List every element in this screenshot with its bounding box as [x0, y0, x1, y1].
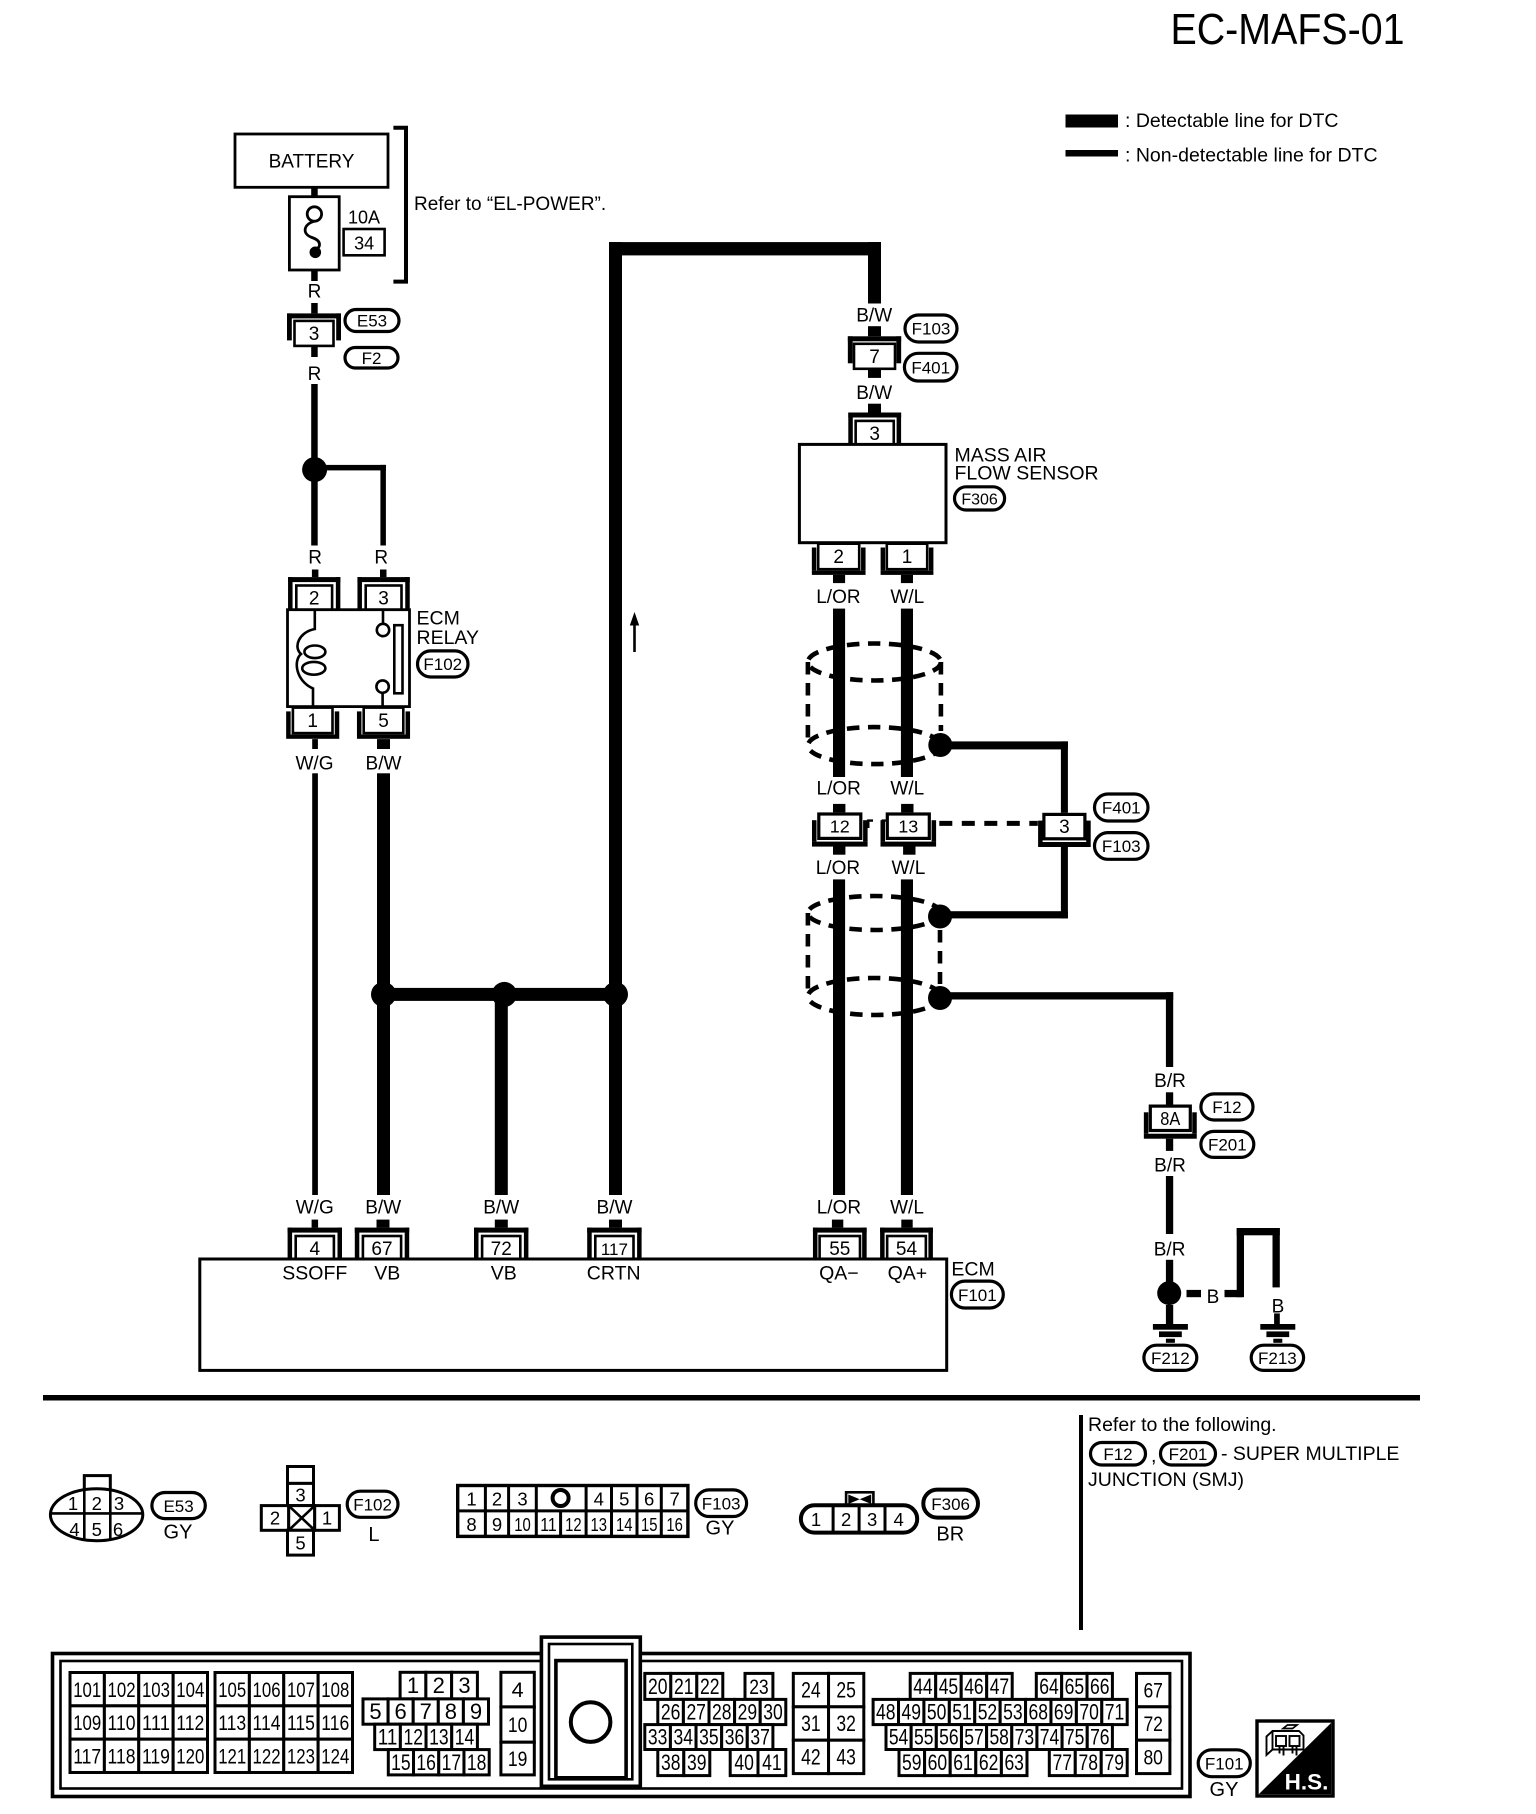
- svg-text:58: 58: [989, 1725, 1009, 1750]
- svg-text:45: 45: [939, 1674, 959, 1699]
- svg-text:105: 105: [218, 1678, 246, 1702]
- wire label B/W at ECM 67: [365, 1197, 401, 1227]
- ECM pin name QA+: [888, 1262, 928, 1284]
- svg-text:9: 9: [470, 1699, 482, 1724]
- svg-text:119: 119: [142, 1744, 170, 1768]
- svg-text:W/L: W/L: [890, 779, 924, 800]
- relay switch: [376, 610, 402, 707]
- svg-text:124: 124: [321, 1744, 349, 1768]
- svg-text:8A: 8A: [1160, 1109, 1180, 1129]
- junction node battery feed: [302, 457, 327, 482]
- relay U2 ECM RELAY box: [288, 610, 410, 707]
- svg-text:4: 4: [594, 1488, 604, 1509]
- svg-text:W/G: W/G: [296, 1197, 334, 1218]
- ground label F212: [1144, 1345, 1197, 1370]
- svg-text:BR: BR: [936, 1524, 964, 1546]
- svg-text:11: 11: [540, 1514, 557, 1535]
- svg-text:QA−: QA−: [819, 1262, 859, 1284]
- connector face label F102 L: [347, 1491, 398, 1546]
- svg-text:B/R: B/R: [1154, 1240, 1186, 1261]
- svg-text:5: 5: [295, 1533, 305, 1554]
- wire junction to relay pin 2, label R: [308, 481, 322, 578]
- svg-text:49: 49: [901, 1700, 921, 1725]
- wire B loop to ground F213: [1225, 1228, 1285, 1324]
- svg-text:3: 3: [458, 1673, 470, 1698]
- wire long B/W feed vertical: [609, 242, 622, 994]
- svg-text:6: 6: [644, 1488, 654, 1509]
- wire to ECM terminal 67: [377, 1001, 390, 1195]
- svg-text:72: 72: [1143, 1712, 1163, 1736]
- svg-text:17: 17: [442, 1750, 462, 1775]
- connector terminal 7 F103/F401: [848, 336, 901, 369]
- svg-text:2: 2: [833, 547, 844, 568]
- SMJ note F201: [1161, 1443, 1216, 1466]
- svg-text:71: 71: [1105, 1700, 1125, 1725]
- svg-text:3: 3: [867, 1509, 877, 1530]
- svg-text:RELAY: RELAY: [417, 627, 480, 649]
- dashed link 13 to 3: [939, 821, 1038, 826]
- svg-text:115: 115: [287, 1711, 315, 1735]
- svg-text:80: 80: [1143, 1746, 1163, 1770]
- svg-text:3: 3: [869, 424, 880, 445]
- connector terminal 3 E53/F2: [287, 313, 341, 346]
- svg-text:65: 65: [1065, 1674, 1085, 1699]
- svg-text:19: 19: [508, 1747, 528, 1771]
- svg-text:4: 4: [69, 1519, 79, 1540]
- svg-text:VB: VB: [491, 1262, 517, 1284]
- svg-text:34: 34: [354, 234, 374, 254]
- svg-text:120: 120: [176, 1744, 204, 1768]
- svg-text:56: 56: [939, 1725, 959, 1750]
- svg-text:2: 2: [433, 1673, 445, 1698]
- svg-text:28: 28: [712, 1700, 732, 1725]
- wire label W/L at ECM 54: [890, 1197, 924, 1227]
- svg-text:2: 2: [270, 1508, 280, 1529]
- wire to ECM terminal 72: [495, 1001, 508, 1195]
- relay connector label F102: [418, 651, 469, 677]
- svg-text:L/OR: L/OR: [817, 1197, 861, 1218]
- svg-text:34: 34: [673, 1725, 693, 1750]
- svg-text:63: 63: [1004, 1750, 1024, 1775]
- ground F213: [1260, 1324, 1295, 1343]
- shield 2 around L/OR W/L: [808, 896, 941, 1015]
- relay name ECM RELAY: [417, 607, 480, 649]
- svg-text:F12: F12: [1212, 1098, 1241, 1117]
- shield 1 around L/OR W/L: [808, 644, 941, 765]
- ground label F213: [1251, 1345, 1303, 1370]
- wire label L/OR at ECM 55: [817, 1197, 861, 1227]
- svg-text:W/L: W/L: [890, 587, 924, 608]
- svg-text:5: 5: [619, 1488, 629, 1509]
- wire B/R to junction: [1154, 1139, 1186, 1283]
- MAF terminal 2: [812, 544, 866, 575]
- ECM face cells 101-120: [70, 1673, 208, 1773]
- wire label B/W at ECM 117: [597, 1197, 633, 1227]
- wire W/L from MAF pin 1: [890, 575, 924, 777]
- svg-text:108: 108: [321, 1678, 349, 1702]
- svg-text:ECM: ECM: [951, 1259, 994, 1281]
- mass air flow sensor name: [955, 445, 1099, 485]
- svg-text:F103: F103: [702, 1494, 741, 1513]
- svg-text:4: 4: [512, 1678, 524, 1702]
- svg-text:CRTN: CRTN: [587, 1262, 641, 1284]
- wire W/G from relay pin 1: [296, 739, 334, 1195]
- svg-text:32: 32: [836, 1711, 856, 1736]
- svg-text:70: 70: [1079, 1700, 1099, 1725]
- wire B/W connector 7 to MAF terminal 3: [856, 370, 892, 413]
- svg-text:2: 2: [92, 1493, 102, 1514]
- svg-text:67: 67: [371, 1239, 392, 1260]
- svg-text:- SUPER MULTIPLE: - SUPER MULTIPLE: [1221, 1443, 1399, 1465]
- svg-text:4: 4: [310, 1239, 321, 1260]
- svg-text:2: 2: [492, 1488, 502, 1509]
- svg-text:3: 3: [114, 1493, 124, 1514]
- svg-text:1: 1: [68, 1493, 78, 1514]
- wire stub dot to B label: [1187, 1287, 1220, 1308]
- svg-text:VB: VB: [374, 1262, 400, 1284]
- svg-text:114: 114: [253, 1711, 281, 1735]
- svg-text:55: 55: [914, 1725, 934, 1750]
- connector face F306: [801, 1492, 917, 1532]
- wire label W/L below connector 13: [892, 846, 926, 1195]
- connector label E53: [345, 310, 399, 332]
- svg-text:52: 52: [978, 1700, 998, 1725]
- ECM pin name SSOFF: [282, 1262, 347, 1284]
- wire right drop to connector 7: [856, 242, 892, 336]
- ECM connector face outer box: [53, 1654, 1191, 1797]
- svg-text:20: 20: [648, 1674, 668, 1699]
- svg-text:F201: F201: [1208, 1136, 1247, 1155]
- svg-text:76: 76: [1090, 1725, 1110, 1750]
- connector label F103: [905, 315, 957, 342]
- svg-text:123: 123: [287, 1744, 315, 1768]
- wire B/W from relay pin 5: [366, 739, 402, 994]
- svg-text:: Non-detectable line for DTC: : Non-detectable line for DTC: [1125, 145, 1378, 167]
- svg-text:24: 24: [801, 1678, 821, 1703]
- svg-text:5: 5: [378, 711, 389, 732]
- svg-text:15: 15: [391, 1750, 411, 1775]
- svg-text:117: 117: [73, 1744, 101, 1768]
- svg-text:7: 7: [420, 1699, 432, 1724]
- wire branch junction to relay pin 3, label R: [315, 465, 388, 577]
- svg-text:F103: F103: [1102, 837, 1141, 856]
- svg-text:QA+: QA+: [888, 1262, 928, 1284]
- ECM pin name QA-: [819, 1262, 859, 1284]
- wire shield 1 drain to connector 3: [940, 741, 1068, 812]
- svg-text:44: 44: [913, 1674, 933, 1699]
- svg-text:6: 6: [113, 1519, 123, 1540]
- wire bus junction row B/W: [377, 988, 622, 1001]
- svg-text:B/W: B/W: [597, 1197, 633, 1218]
- svg-text:13: 13: [429, 1725, 449, 1750]
- svg-text:78: 78: [1079, 1750, 1099, 1775]
- ECM terminal 55: [813, 1228, 867, 1260]
- svg-text:B: B: [1207, 1287, 1220, 1308]
- wire L/OR from MAF pin 2: [816, 575, 860, 777]
- svg-text:F101: F101: [958, 1286, 997, 1305]
- svg-text:8: 8: [466, 1514, 476, 1535]
- svg-text:GY: GY: [164, 1522, 193, 1544]
- svg-text:74: 74: [1040, 1725, 1060, 1750]
- svg-text:5: 5: [369, 1699, 381, 1724]
- svg-text:109: 109: [73, 1711, 101, 1735]
- connector label F401: [904, 353, 957, 381]
- legend non-detectable line sample: [1066, 150, 1119, 157]
- svg-text:117: 117: [601, 1240, 628, 1259]
- svg-text:57: 57: [964, 1725, 984, 1750]
- legend non-detectable text: [1125, 145, 1378, 167]
- ECM terminal 4: [288, 1228, 342, 1260]
- svg-text:B/R: B/R: [1154, 1071, 1186, 1092]
- svg-text:F102: F102: [353, 1495, 392, 1514]
- ECM connector label F101: [951, 1281, 1003, 1308]
- svg-text:F12: F12: [1103, 1445, 1132, 1464]
- svg-text:48: 48: [876, 1700, 896, 1725]
- relay terminal 5: [357, 708, 410, 739]
- svg-text:27: 27: [686, 1700, 706, 1725]
- ground F212: [1153, 1324, 1188, 1343]
- legend detectable line sample: [1066, 115, 1119, 128]
- svg-text:B/W: B/W: [365, 1197, 401, 1218]
- svg-text:41: 41: [762, 1750, 782, 1775]
- svg-text:E53: E53: [357, 312, 387, 331]
- svg-text:EC-MAFS-01: EC-MAFS-01: [1171, 5, 1405, 54]
- svg-text:7: 7: [869, 347, 880, 368]
- connector label F401 right: [1095, 794, 1149, 821]
- svg-text:W/L: W/L: [892, 858, 926, 879]
- fuse 34 10A: [289, 197, 339, 270]
- svg-text:35: 35: [699, 1725, 719, 1750]
- svg-text:R: R: [308, 364, 322, 385]
- svg-text:26: 26: [661, 1700, 681, 1725]
- svg-text:22: 22: [700, 1674, 720, 1699]
- svg-text:B/W: B/W: [856, 305, 892, 326]
- svg-text:1: 1: [322, 1508, 332, 1529]
- wire to ECM terminal 117: [609, 1001, 622, 1195]
- svg-text:F101: F101: [1205, 1754, 1244, 1773]
- fuse value label 10A: [348, 208, 380, 228]
- svg-text:33: 33: [648, 1725, 668, 1750]
- svg-text:38: 38: [661, 1750, 681, 1775]
- svg-text:,: ,: [1151, 1445, 1156, 1467]
- svg-text:122: 122: [253, 1744, 281, 1768]
- svg-text:L/OR: L/OR: [816, 858, 860, 879]
- svg-text:F201: F201: [1169, 1445, 1208, 1464]
- connector face label F306 BR: [923, 1490, 978, 1546]
- connector terminal 13: [881, 814, 937, 847]
- connector face label E53 GY: [152, 1493, 205, 1544]
- svg-text:16: 16: [416, 1750, 436, 1775]
- ECM terminal 117: [587, 1228, 641, 1260]
- svg-text:14: 14: [455, 1725, 475, 1750]
- svg-text:103: 103: [142, 1678, 170, 1702]
- svg-text:8: 8: [445, 1699, 457, 1724]
- wire battery to fuse: [311, 187, 318, 196]
- svg-text:JUNCTION (SMJ): JUNCTION (SMJ): [1088, 1469, 1244, 1491]
- note refer to the following: [1088, 1414, 1277, 1436]
- junction node ground B: [1157, 1281, 1181, 1305]
- svg-text:47: 47: [990, 1674, 1010, 1699]
- svg-text:72: 72: [491, 1239, 512, 1260]
- wire label W/G at ECM 4: [296, 1197, 334, 1227]
- wire label W/L above connector 13: [890, 779, 924, 813]
- svg-text:3: 3: [1059, 817, 1070, 838]
- svg-text:1: 1: [902, 547, 913, 568]
- svg-text:F103: F103: [912, 320, 951, 339]
- MAF terminal 3: [848, 413, 901, 446]
- connector label F2: [345, 348, 398, 369]
- svg-text:60: 60: [928, 1750, 948, 1775]
- svg-text:111: 111: [142, 1711, 170, 1735]
- svg-text:H.S.: H.S.: [1285, 1770, 1329, 1795]
- ECM face center housing: [541, 1637, 640, 1786]
- connector label F103 right: [1095, 833, 1149, 860]
- ECM pin name VB 67: [374, 1262, 400, 1284]
- ECM pin name VB 72: [491, 1262, 517, 1284]
- svg-text:F102: F102: [423, 655, 462, 674]
- connector face label F103 GY: [696, 1490, 747, 1540]
- svg-text:3: 3: [295, 1485, 305, 1506]
- wire R to junction: [308, 346, 322, 459]
- bracket refer EL-POWER: [393, 128, 406, 282]
- svg-text:67: 67: [1143, 1679, 1163, 1703]
- ECM terminal 54: [880, 1228, 933, 1260]
- svg-text:B/W: B/W: [483, 1197, 519, 1218]
- battery B1: [235, 134, 388, 187]
- ECM pin name CRTN: [587, 1262, 641, 1284]
- svg-text:F2: F2: [362, 349, 382, 368]
- svg-text:18: 18: [467, 1750, 487, 1775]
- divider line: [43, 1395, 1420, 1401]
- svg-text:16: 16: [666, 1514, 683, 1535]
- svg-text:36: 36: [725, 1725, 745, 1750]
- ECM name label: [951, 1259, 994, 1281]
- connector face E53: [50, 1476, 142, 1541]
- ECM terminal 67: [355, 1228, 409, 1260]
- svg-text:13: 13: [591, 1514, 608, 1535]
- connector label F306: [955, 487, 1005, 510]
- svg-text:12: 12: [403, 1725, 423, 1750]
- ECM terminal 72: [474, 1228, 528, 1260]
- svg-text:102: 102: [108, 1678, 136, 1702]
- svg-text:15: 15: [641, 1514, 658, 1535]
- svg-text:106: 106: [253, 1678, 281, 1702]
- connector terminal 8A F12/F201: [1144, 1106, 1197, 1139]
- svg-text:21: 21: [674, 1674, 694, 1699]
- svg-text:59: 59: [902, 1750, 922, 1775]
- connector terminal 12: [812, 814, 873, 847]
- svg-text:25: 25: [836, 1678, 856, 1703]
- connector face F103: [458, 1486, 688, 1537]
- relay terminal 2: [288, 577, 340, 610]
- svg-text:6: 6: [395, 1699, 407, 1724]
- svg-text:F213: F213: [1258, 1349, 1297, 1368]
- svg-text:3: 3: [309, 324, 320, 345]
- svg-text:B/W: B/W: [856, 383, 892, 404]
- svg-text:53: 53: [1003, 1700, 1023, 1725]
- svg-text:: Detectable line for DTC: : Detectable line for DTC: [1125, 110, 1339, 132]
- junction node B/W 1: [371, 982, 396, 1007]
- svg-text:F401: F401: [1102, 799, 1141, 818]
- svg-text:54: 54: [896, 1239, 918, 1260]
- svg-text:3: 3: [378, 588, 389, 609]
- connector label F12: [1201, 1094, 1253, 1120]
- svg-text:101: 101: [73, 1678, 101, 1702]
- svg-text:E53: E53: [163, 1497, 193, 1516]
- svg-text:110: 110: [108, 1711, 136, 1735]
- shield 2 drain node bottom: [928, 986, 952, 1010]
- svg-text:R: R: [308, 547, 322, 568]
- svg-text:1: 1: [307, 711, 318, 732]
- SMJ note text: [1088, 1443, 1399, 1491]
- junction node B/W 3: [603, 982, 628, 1007]
- svg-text:R: R: [308, 282, 322, 303]
- svg-text:55: 55: [829, 1239, 850, 1260]
- fuse number box 34: [344, 229, 385, 255]
- svg-text:113: 113: [218, 1711, 246, 1735]
- svg-text:75: 75: [1065, 1725, 1085, 1750]
- svg-text:23: 23: [749, 1675, 769, 1699]
- svg-text:12: 12: [565, 1514, 582, 1535]
- svg-text:GY: GY: [1210, 1779, 1239, 1801]
- svg-text:107: 107: [287, 1678, 315, 1702]
- svg-text:R: R: [374, 547, 388, 568]
- svg-text:54: 54: [889, 1725, 909, 1750]
- svg-text:77: 77: [1053, 1750, 1073, 1775]
- relay terminal 1: [286, 708, 339, 739]
- svg-text:40: 40: [734, 1750, 754, 1775]
- ECM face cells 105-124: [215, 1673, 353, 1773]
- ECM face cells 20-43: [645, 1673, 864, 1775]
- svg-text:L: L: [368, 1524, 379, 1546]
- relay terminal 3: [357, 577, 409, 610]
- svg-text:69: 69: [1054, 1700, 1074, 1725]
- svg-text:BATTERY: BATTERY: [269, 152, 355, 173]
- shield 1 drain node: [928, 733, 952, 757]
- svg-text:1: 1: [407, 1673, 419, 1698]
- svg-text:62: 62: [979, 1750, 999, 1775]
- ECM face cells 44-80: [873, 1673, 1170, 1775]
- wire label R below fuse: [308, 270, 322, 313]
- svg-text:FLOW SENSOR: FLOW SENSOR: [955, 463, 1099, 485]
- svg-text:118: 118: [108, 1744, 136, 1768]
- wire label L/OR above connector 12: [817, 779, 861, 813]
- svg-text:37: 37: [750, 1725, 770, 1750]
- svg-text:116: 116: [321, 1711, 349, 1735]
- mass air flow sensor box: [799, 444, 946, 542]
- svg-text:4: 4: [893, 1509, 903, 1530]
- svg-text:66: 66: [1090, 1674, 1110, 1699]
- svg-text:L/OR: L/OR: [816, 587, 860, 608]
- svg-text:51: 51: [952, 1700, 972, 1725]
- wire connector 3 to shield 2 drain: [940, 846, 1068, 919]
- svg-text:1: 1: [466, 1488, 476, 1509]
- svg-text:10: 10: [508, 1713, 528, 1737]
- svg-text:SSOFF: SSOFF: [282, 1262, 347, 1284]
- note Refer to EL-POWER: [414, 194, 606, 215]
- wire label L/OR below connector 12: [816, 846, 860, 1195]
- svg-text:121: 121: [218, 1744, 246, 1768]
- svg-text:10: 10: [514, 1514, 531, 1535]
- wire shield 2 drain to ground run B/R: [940, 992, 1186, 1104]
- connector terminal 3 F401/F103: [1038, 814, 1091, 847]
- legend detectable text: [1125, 110, 1339, 132]
- separator refer-to column: [1079, 1415, 1083, 1630]
- shield 2 drain node top: [928, 905, 952, 929]
- svg-text:104: 104: [176, 1678, 204, 1702]
- svg-text:3: 3: [517, 1488, 527, 1509]
- svg-text:5: 5: [92, 1519, 102, 1540]
